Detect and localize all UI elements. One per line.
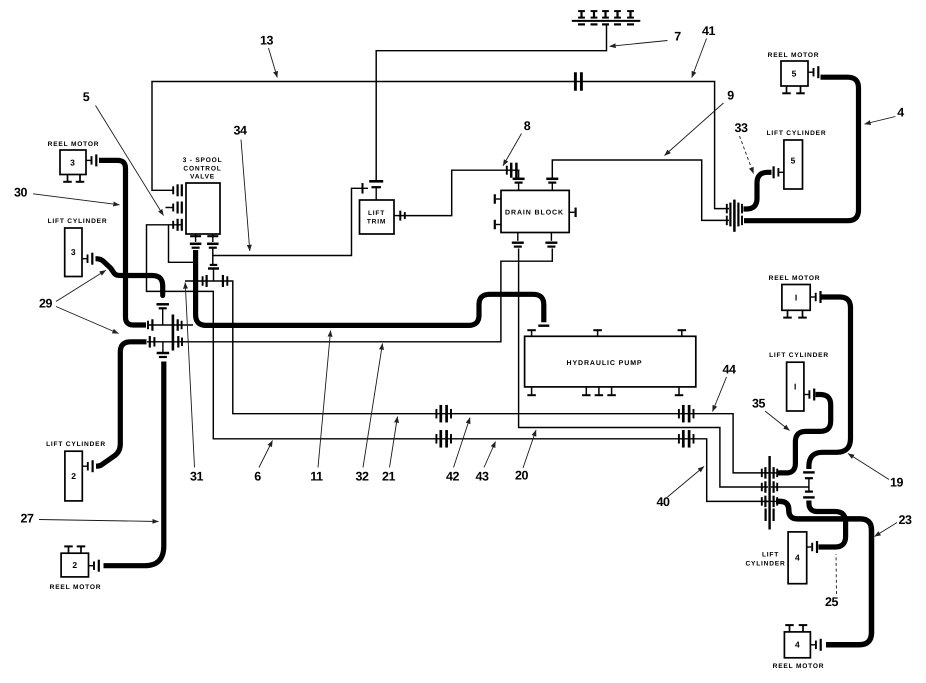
svg-text:31: 31 <box>190 470 204 484</box>
svg-text:3 - SPOOL: 3 - SPOOL <box>183 157 223 164</box>
svg-text:LIFT CYLINDER: LIFT CYLINDER <box>48 218 108 225</box>
svg-text:5: 5 <box>792 68 797 78</box>
svg-text:6: 6 <box>254 470 261 484</box>
svg-text:42: 42 <box>446 470 460 484</box>
svg-text:I: I <box>795 292 797 302</box>
svg-text:9: 9 <box>727 89 734 103</box>
svg-text:2: 2 <box>72 560 77 570</box>
svg-text:REEL MOTOR: REEL MOTOR <box>48 141 100 148</box>
svg-text:VALVE: VALVE <box>190 174 215 181</box>
svg-text:4: 4 <box>795 552 800 562</box>
svg-text:REEL MOTOR: REEL MOTOR <box>769 275 821 282</box>
svg-text:19: 19 <box>890 476 904 490</box>
svg-text:3: 3 <box>71 247 76 257</box>
svg-text:29: 29 <box>39 297 53 311</box>
svg-text:LIFT: LIFT <box>762 551 779 558</box>
svg-text:4: 4 <box>795 640 800 650</box>
svg-text:13: 13 <box>260 34 274 48</box>
svg-text:5: 5 <box>791 156 796 166</box>
svg-text:2: 2 <box>71 471 76 481</box>
svg-text:REEL MOTOR: REEL MOTOR <box>773 663 825 670</box>
svg-text:3: 3 <box>70 157 75 167</box>
svg-text:5: 5 <box>83 90 90 104</box>
svg-text:33: 33 <box>734 121 748 135</box>
svg-text:21: 21 <box>382 470 396 484</box>
svg-text:34: 34 <box>233 124 247 138</box>
svg-text:REEL MOTOR: REEL MOTOR <box>768 52 820 59</box>
svg-text:11: 11 <box>310 470 323 484</box>
svg-text:LIFT CYLINDER: LIFT CYLINDER <box>769 352 829 359</box>
svg-text:4: 4 <box>897 106 904 120</box>
svg-text:7: 7 <box>674 30 681 44</box>
svg-text:DRAIN BLOCK: DRAIN BLOCK <box>505 209 564 216</box>
svg-text:REEL MOTOR: REEL MOTOR <box>50 584 102 591</box>
svg-text:32: 32 <box>355 470 369 484</box>
svg-text:25: 25 <box>825 595 839 609</box>
svg-text:35: 35 <box>752 397 766 411</box>
svg-text:43: 43 <box>475 470 489 484</box>
svg-text:20: 20 <box>515 469 529 483</box>
svg-text:LIFT: LIFT <box>368 210 385 217</box>
svg-text:HYDRAULIC PUMP: HYDRAULIC PUMP <box>567 360 643 367</box>
svg-text:27: 27 <box>20 512 34 526</box>
svg-text:23: 23 <box>898 513 912 527</box>
svg-text:LIFT CYLINDER: LIFT CYLINDER <box>46 441 106 448</box>
svg-text:41: 41 <box>702 24 716 38</box>
svg-text:TRIM: TRIM <box>367 219 386 226</box>
svg-text:44: 44 <box>722 363 736 377</box>
svg-text:I: I <box>794 381 796 391</box>
svg-text:30: 30 <box>14 186 28 200</box>
svg-text:8: 8 <box>524 119 531 133</box>
svg-text:LIFT CYLINDER: LIFT CYLINDER <box>767 130 827 137</box>
svg-text:CYLINDER: CYLINDER <box>745 561 785 568</box>
svg-text:CONTROL: CONTROL <box>183 165 221 172</box>
